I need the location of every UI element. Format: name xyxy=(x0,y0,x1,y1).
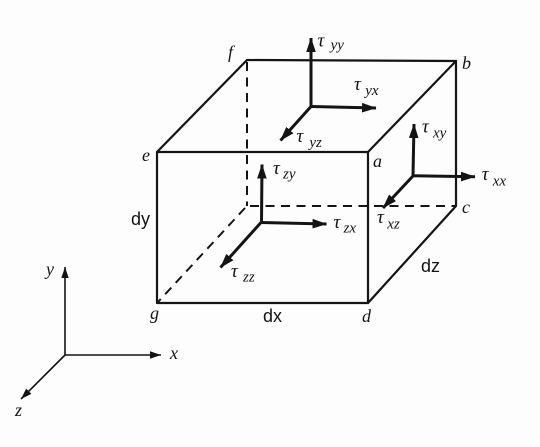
svg-text:τ: τ xyxy=(297,126,305,147)
svg-text:e: e xyxy=(142,145,150,165)
svg-text:zx: zx xyxy=(343,221,357,237)
svg-text:c: c xyxy=(462,197,470,217)
svg-text:yy: yy xyxy=(329,38,345,54)
svg-text:yz: yz xyxy=(307,135,322,151)
svg-text:dx: dx xyxy=(263,306,282,326)
svg-text:y: y xyxy=(44,259,54,279)
svg-text:f: f xyxy=(228,42,236,62)
svg-text:dz: dz xyxy=(421,256,440,276)
svg-text:z: z xyxy=(14,400,22,420)
svg-text:τ: τ xyxy=(422,117,430,138)
svg-text:x: x xyxy=(169,343,178,363)
svg-text:τ: τ xyxy=(334,212,342,233)
svg-text:τ: τ xyxy=(482,164,490,185)
svg-text:a: a xyxy=(373,151,382,171)
svg-text:τ: τ xyxy=(318,31,326,52)
svg-text:τ: τ xyxy=(231,261,239,282)
svg-text:τ: τ xyxy=(377,207,385,228)
svg-text:zz: zz xyxy=(242,270,255,286)
svg-text:yx: yx xyxy=(363,83,379,99)
svg-text:xx: xx xyxy=(492,174,507,190)
svg-text:zy: zy xyxy=(282,167,296,183)
svg-text:b: b xyxy=(462,53,471,73)
svg-text:τ: τ xyxy=(273,158,281,179)
svg-text:dy: dy xyxy=(131,209,150,229)
svg-text:xz: xz xyxy=(386,216,400,232)
svg-text:xy: xy xyxy=(432,126,447,142)
svg-text:d: d xyxy=(362,306,372,326)
svg-text:τ: τ xyxy=(354,74,362,95)
svg-text:g: g xyxy=(150,303,159,323)
